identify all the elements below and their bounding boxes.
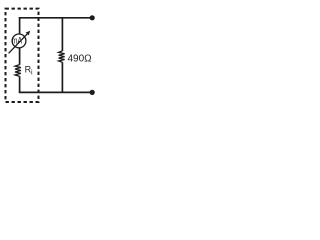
- resistor 490 zigzag: [59, 51, 65, 62]
- wire bottom horizontal: [19, 91, 92, 93]
- wire left branch lower: [19, 76, 21, 93]
- resistor Ri zigzag: [15, 65, 21, 77]
- meter movement circle mA: [12, 34, 26, 48]
- background: [0, 0, 118, 122]
- movement arrow: [9, 33, 29, 53]
- wire top horizontal: [19, 17, 92, 19]
- terminal dot bottom: [90, 90, 95, 95]
- wire right branch upper: [61, 17, 63, 51]
- wire left branch upper: [19, 17, 21, 34]
- wire left branch middle: [19, 47, 21, 64]
- terminal dot top: [90, 15, 95, 20]
- svg-text:490Ω: 490Ω: [68, 54, 93, 65]
- dashed source box: [6, 9, 39, 102]
- wire right branch lower: [61, 62, 63, 93]
